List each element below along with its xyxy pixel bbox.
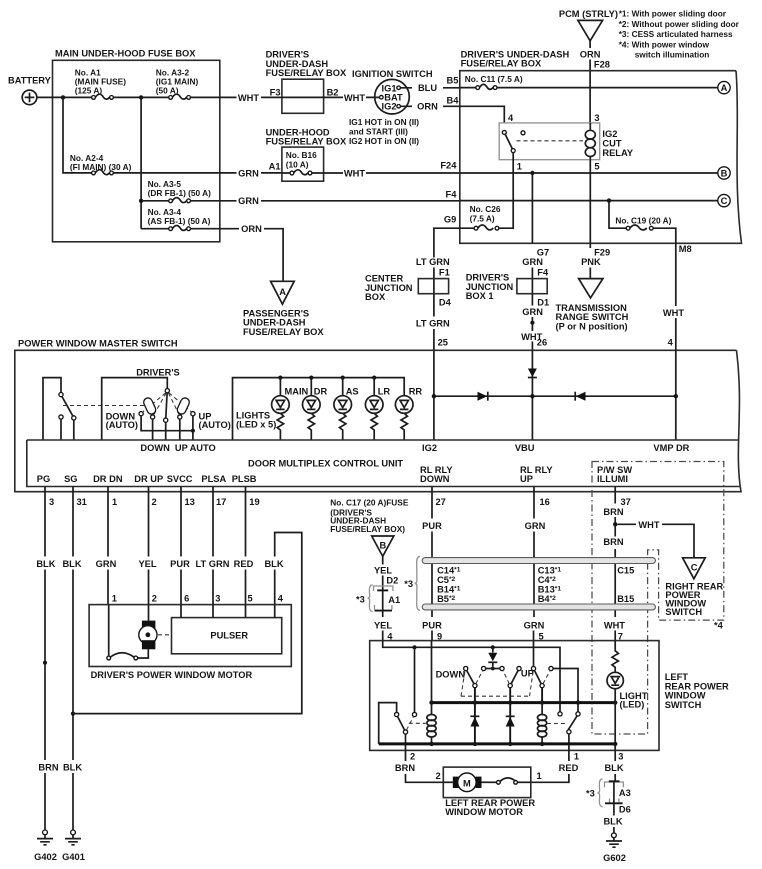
svg-text:(10 A): (10 A)	[286, 160, 309, 170]
fuse A2-4 (FI MAIN 30A)	[70, 153, 132, 175]
svg-text:FUSE/RELAY BOX: FUSE/RELAY BOX	[461, 59, 542, 69]
wire GRN (pin16) down	[533, 487, 536, 641]
dashed link motor to pulser	[158, 634, 171, 636]
wire A1 to A3-2	[113, 96, 168, 98]
svg-text:GRN: GRN	[524, 620, 545, 630]
label *3 with brace for rails	[404, 556, 420, 610]
svg-text:*3: *3	[586, 788, 595, 798]
motor box	[89, 605, 291, 667]
svg-text:D2: D2	[386, 576, 398, 586]
svg-text:MAIN UNDER-HOOD FUSE BOX: MAIN UNDER-HOOD FUSE BOX	[55, 49, 196, 59]
wire VMP DR feed (pin4) inside box	[675, 350, 677, 440]
svg-text:DR: DR	[314, 386, 328, 396]
wire rail to left SPDT contact	[414, 647, 416, 712]
wire battery branch down to A2-4	[63, 97, 93, 172]
svg-text:LR: LR	[378, 386, 391, 396]
wire vertical feed to A3-5/A3-4	[140, 97, 142, 228]
svg-text:(DR FB-1) (50 A): (DR FB-1) (50 A)	[148, 188, 212, 198]
wire G7 down from B row	[531, 173, 533, 243]
left switch bracket	[43, 378, 61, 440]
svg-text:BATTERY: BATTERY	[8, 75, 52, 85]
motor M2	[443, 773, 496, 792]
svg-text:WHT: WHT	[638, 520, 659, 530]
svg-text:No. C17 (20 A)FUSE: No. C17 (20 A)FUSE	[330, 498, 409, 508]
svg-text:LT GRN: LT GRN	[196, 559, 230, 569]
labels rail connector column 1	[437, 566, 461, 604]
svg-text:IG2 HOT in ON (II): IG2 HOT in ON (II)	[349, 136, 419, 146]
svg-text:SG: SG	[64, 474, 77, 484]
LED AS	[334, 396, 352, 440]
labels rail connector column 2	[538, 566, 562, 604]
driver's under-dash fuse/relay box (F3-B2)	[266, 50, 347, 114]
svg-text:UP: UP	[520, 474, 533, 484]
svg-text:FUSE/RELAY BOX): FUSE/RELAY BOX)	[330, 524, 405, 534]
pin numbers right group	[436, 497, 631, 507]
wire DOWN contact to bus	[474, 688, 476, 703]
svg-text:B5: B5	[447, 75, 459, 85]
LED bracket rail	[233, 378, 405, 440]
svg-text:PUR: PUR	[422, 521, 442, 531]
svg-text:19: 19	[249, 497, 259, 507]
svg-text:GRN: GRN	[525, 521, 546, 531]
svg-text:G602: G602	[603, 853, 626, 863]
svg-text:UP: UP	[521, 669, 534, 679]
node bus right coil	[540, 700, 544, 704]
connector triangle A (passenger's under-dash fuse/relay box)	[243, 281, 324, 337]
left SPDT hook wire	[379, 703, 397, 744]
svg-text:ILLUMI: ILLUMI	[597, 474, 628, 484]
svg-text:IGNITION SWITCH: IGNITION SWITCH	[352, 69, 433, 79]
svg-text:F4: F4	[537, 267, 549, 277]
label RL RLY DOWN	[420, 465, 453, 484]
svg-text:D4: D4	[439, 298, 452, 308]
svg-text:LT GRN: LT GRN	[416, 257, 450, 267]
svg-text:BRN: BRN	[603, 537, 623, 547]
svg-text:DOWN: DOWN	[420, 474, 450, 484]
wire WHT (M8) to pin 4	[675, 243, 677, 350]
svg-text:ORN: ORN	[417, 102, 438, 112]
driver's switch bracket	[102, 378, 168, 440]
svg-text:M8: M8	[679, 244, 692, 254]
master switch box outline with torn right edge	[15, 339, 741, 492]
svg-text:A1: A1	[269, 162, 281, 172]
svg-text:DR UP: DR UP	[134, 474, 163, 484]
driver's under-dash fuse/relay box (right) outline with torn edge	[460, 49, 742, 243]
svg-text:BRN: BRN	[38, 763, 58, 773]
notes *1-*4	[619, 9, 740, 60]
svg-text:16: 16	[540, 497, 550, 507]
svg-text:(AS FB-1) (50 A): (AS FB-1) (50 A)	[148, 216, 211, 226]
node bus LED branch	[613, 700, 617, 704]
wire ORN row to passenger triangle	[191, 229, 284, 282]
fuse A1 (MAIN FUSE 125A)	[75, 68, 126, 100]
CESS rail upper	[422, 558, 655, 564]
svg-text:1: 1	[112, 593, 117, 603]
svg-text:YEL: YEL	[138, 559, 156, 569]
svg-text:ORN: ORN	[580, 49, 601, 59]
svg-text:IG2: IG2	[422, 443, 437, 453]
svg-text:PUR: PUR	[170, 559, 190, 569]
svg-text:(AUTO): (AUTO)	[199, 420, 231, 430]
connector circle B	[718, 167, 730, 179]
label DOWN (AUTO)	[106, 411, 138, 430]
resistor on WHT illumination	[612, 641, 618, 673]
svg-text:switch illumination: switch illumination	[635, 50, 710, 60]
svg-text:PCM (STRLY): PCM (STRLY)	[559, 9, 618, 19]
fuse No. C11 (7.5 A)	[460, 74, 523, 89]
svg-text:31: 31	[77, 497, 87, 507]
svg-text:5: 5	[539, 631, 544, 641]
wire RED to motor	[531, 750, 569, 782]
wire BRN (pin37) down	[614, 487, 616, 641]
connector circle C	[718, 194, 730, 206]
svg-text:BOX 1: BOX 1	[466, 291, 494, 301]
node B row / G7 junction	[530, 171, 534, 175]
wire battery to fuse A1	[37, 96, 93, 98]
svg-text:GRN: GRN	[96, 559, 117, 569]
node rail to diode	[491, 645, 495, 649]
pin numbers left group	[49, 497, 260, 507]
labels pin names bottom row	[37, 474, 257, 484]
relay IG2 CUT RELAY	[499, 123, 634, 160]
wire IG2 feed (pin25) inside box	[433, 350, 435, 440]
connector D2/A1 pair	[374, 586, 393, 617]
svg-text:4: 4	[668, 338, 674, 348]
svg-text:GRN: GRN	[522, 307, 543, 317]
svg-text:BOX: BOX	[365, 292, 386, 302]
svg-text:G402: G402	[34, 852, 57, 862]
svg-text:7: 7	[618, 631, 623, 641]
svg-text:AUTO: AUTO	[190, 443, 216, 453]
battery	[8, 75, 52, 104]
connector triangle C	[683, 558, 706, 579]
svg-text:GRN: GRN	[522, 257, 543, 267]
svg-text:13: 13	[185, 497, 195, 507]
connector A3/D6 pair	[605, 781, 624, 813]
wire BRN to motor	[406, 750, 444, 782]
wire BLK motor pin4 return loop	[73, 533, 302, 714]
wire BLK pin3 to A3 connector	[614, 750, 616, 781]
label *3 with brace	[356, 585, 373, 612]
relay coil right	[538, 703, 547, 744]
label *3 with brace	[586, 779, 603, 807]
diode pointing right	[478, 392, 488, 401]
svg-text:1: 1	[537, 771, 542, 781]
svg-text:2: 2	[410, 752, 415, 762]
svg-text:WHT: WHT	[604, 620, 625, 630]
svg-text:*2: Without power sliding door: *2: Without power sliding door	[619, 19, 740, 29]
svg-text:FUSE/RELAY BOX: FUSE/RELAY BOX	[266, 68, 347, 78]
svg-text:POWER WINDOW MASTER SWITCH: POWER WINDOW MASTER SWITCH	[18, 339, 178, 349]
svg-text:PLSA: PLSA	[201, 474, 226, 484]
wire YEL top rail	[383, 641, 560, 712]
svg-text:B15: B15	[617, 594, 634, 604]
dashed link left switch to driver's switch	[63, 405, 145, 407]
node bus up-diode branch	[508, 700, 512, 704]
svg-text:RR: RR	[409, 386, 423, 396]
wire BLK to ground	[613, 813, 615, 833]
svg-text:F3: F3	[270, 87, 281, 97]
svg-text:A3: A3	[619, 788, 631, 798]
node bottom bus coil left	[429, 742, 433, 746]
label No. C17 fuse note	[330, 498, 409, 535]
node diode row left	[432, 394, 436, 398]
svg-text:F24: F24	[440, 161, 457, 171]
svg-text:1: 1	[574, 752, 579, 762]
svg-text:5: 5	[594, 162, 599, 172]
wire DR UP YEL to motor pin2	[148, 487, 150, 605]
svg-text:1: 1	[517, 162, 522, 172]
dashed rocker mechanism	[461, 672, 533, 697]
svg-text:M: M	[463, 779, 471, 789]
wire pin2 BRN out of box	[405, 734, 407, 750]
LED LR	[365, 396, 383, 440]
fuse A3-5 (DR FB-1 50A)	[141, 179, 211, 203]
svg-text:6: 6	[184, 593, 189, 603]
svg-text:A1: A1	[388, 595, 400, 605]
thick bus	[432, 701, 616, 704]
wire row A	[497, 87, 718, 89]
svg-text:*3: *3	[356, 595, 365, 605]
node A3-5 junction	[139, 199, 143, 203]
wire UP aux contact to lower right SPDT	[553, 669, 578, 712]
driver's switch pivot and contacts	[139, 389, 195, 423]
center junction box	[365, 274, 449, 303]
wire PUR into left relay coil	[431, 641, 433, 703]
svg-text:DRIVER'S POWER WINDOW MOTOR: DRIVER'S POWER WINDOW MOTOR	[91, 670, 253, 680]
left switch contacts	[59, 393, 76, 441]
diode up branch (pointing up)	[506, 703, 515, 744]
svg-text:RED: RED	[234, 559, 254, 569]
svg-text:F4: F4	[446, 190, 458, 200]
svg-text:WHT: WHT	[344, 168, 365, 178]
svg-text:3: 3	[594, 113, 599, 123]
svg-text:and START (III): and START (III)	[349, 126, 408, 136]
svg-text:GRN: GRN	[238, 168, 259, 178]
wire LED to bottom bus and pin3	[614, 703, 616, 751]
svg-text:MAIN: MAIN	[285, 386, 309, 396]
LIGHT LED	[607, 672, 623, 702]
svg-text:DRIVER'S: DRIVER'S	[136, 368, 180, 378]
svg-text:VBU: VBU	[515, 443, 535, 453]
wire GRN row (A3-5 out) to F4 of driver's box	[191, 200, 460, 202]
label UP (AUTO)	[199, 411, 231, 430]
label RL RLY UP	[520, 465, 553, 484]
fuse A3-4 (AS FB-1 50A)	[141, 207, 211, 231]
svg-text:DOOR MULTIPLEX CONTROL UNIT: DOOR MULTIPLEX CONTROL UNIT	[248, 459, 403, 469]
svg-text:37: 37	[621, 497, 631, 507]
svg-text:PNK: PNK	[581, 257, 601, 267]
svg-text:YEL: YEL	[374, 565, 392, 575]
svg-text:4: 4	[387, 631, 393, 641]
svg-text:BLK: BLK	[604, 763, 623, 773]
svg-text:(7.5 A): (7.5 A)	[470, 213, 495, 223]
ground G401	[62, 830, 85, 862]
svg-text:IG2: IG2	[382, 102, 397, 112]
diode VBU down	[528, 369, 537, 378]
label right rear power window switch	[665, 582, 723, 618]
svg-text:B: B	[721, 169, 728, 179]
ground G402	[34, 830, 57, 862]
fuse A3-2 (IG1 MAIN 50A)	[156, 68, 199, 100]
wire YEL to left rear switch pin4	[382, 631, 384, 641]
svg-text:BLU: BLU	[418, 83, 437, 93]
connector triangle B	[372, 536, 394, 556]
nodes on LED bracket	[278, 376, 376, 396]
svg-text:BRN: BRN	[395, 763, 415, 773]
node diode to contacts	[491, 667, 495, 671]
svg-text:3: 3	[618, 752, 623, 762]
svg-text:A: A	[721, 83, 728, 93]
node bus PUR coil	[429, 700, 433, 704]
wire UP contact to bus	[509, 688, 511, 703]
door multiplex control unit box	[27, 440, 740, 487]
svg-text:*3: *3	[404, 579, 413, 589]
wire row B (F24 to circle B)	[460, 172, 718, 174]
node SG / motor return junction	[71, 712, 75, 716]
svg-text:4: 4	[508, 113, 514, 123]
diode down branch (pointing up)	[470, 703, 479, 744]
svg-text:26: 26	[537, 338, 547, 348]
svg-text:PUR: PUR	[422, 620, 442, 630]
labels MAIN DR AS LR RR	[285, 386, 423, 396]
fuse No. C19 (20 A)	[609, 201, 676, 244]
motor M1	[138, 605, 157, 658]
svg-text:VMP DR: VMP DR	[653, 443, 689, 453]
wire row C (F4 to circle C)	[460, 200, 718, 202]
svg-text:FUSE/RELAY BOX: FUSE/RELAY BOX	[266, 137, 347, 147]
node C row / C19 junction	[607, 198, 611, 202]
svg-text:C: C	[691, 562, 698, 572]
svg-text:C: C	[721, 196, 728, 206]
svg-text:SVCC: SVCC	[167, 474, 193, 484]
wire PLSA LT GRN to motor pin3	[212, 487, 214, 605]
svg-text:PG: PG	[37, 474, 50, 484]
fuse No. C26 (7.5 A)	[434, 204, 501, 258]
svg-text:17: 17	[216, 497, 226, 507]
svg-text:D6: D6	[619, 805, 631, 815]
node splice on G7 wire	[530, 321, 534, 325]
left rear power window motor box	[436, 767, 542, 817]
svg-text:BLK: BLK	[62, 559, 81, 569]
svg-text:G9: G9	[444, 215, 456, 225]
LED MAIN	[272, 396, 290, 440]
svg-text:RED: RED	[559, 763, 579, 773]
svg-text:2: 2	[152, 593, 157, 603]
svg-text:(LED): (LED)	[620, 700, 645, 710]
bottom bus	[379, 742, 616, 745]
thermal protector	[107, 605, 138, 660]
wire WHT B16 to F24	[324, 172, 460, 174]
node on PG wire	[43, 661, 47, 665]
label P/W SW ILLUMI	[597, 465, 632, 484]
svg-text:YEL: YEL	[374, 620, 392, 630]
LED DR	[303, 396, 321, 440]
svg-text:A: A	[279, 287, 286, 297]
svg-text:(LED x 5): (LED x 5)	[236, 419, 276, 429]
svg-text:*1: With power sliding door: *1: With power sliding door	[619, 9, 727, 19]
svg-text:9: 9	[437, 631, 442, 641]
wire relay pin1 down to C26 fuse row	[499, 153, 513, 229]
wire YEL below triangle B	[382, 556, 384, 590]
wire B4 ORN to relay pin 4	[460, 106, 505, 123]
svg-text:SWITCH: SWITCH	[665, 607, 702, 617]
svg-text:(AUTO): (AUTO)	[106, 420, 138, 430]
svg-text:WHT: WHT	[663, 308, 684, 318]
ground G602	[603, 833, 626, 863]
diode pointing left	[575, 392, 585, 401]
svg-text:DOWN: DOWN	[140, 443, 170, 453]
svg-text:G7: G7	[537, 248, 549, 258]
svg-text:WHT: WHT	[344, 93, 365, 103]
svg-text:2: 2	[436, 771, 441, 781]
node bottom bus LED	[613, 742, 617, 746]
main under-hood fuse box outline	[53, 49, 220, 242]
node auto junction	[191, 429, 195, 433]
pulser box	[172, 605, 282, 654]
right SPDT switch	[547, 712, 580, 734]
svg-text:1: 1	[112, 497, 117, 507]
left SPDT switch	[395, 712, 426, 734]
labels DOWN UP AUTO	[140, 443, 215, 453]
driver's junction box 1	[466, 273, 548, 302]
fuse B16	[282, 170, 324, 175]
svg-text:UP: UP	[175, 443, 188, 453]
svg-text:PULSER: PULSER	[210, 631, 248, 641]
PCM (STRLY) connector triangle	[559, 9, 618, 41]
wire SVCC PUR to motor pin6	[180, 487, 182, 605]
LED RR	[395, 396, 413, 440]
diode auto-down (pointing down)	[488, 647, 497, 666]
wire VBU feed (pin26) inside box	[531, 350, 533, 440]
node illumination junction	[613, 522, 617, 526]
wire GRN (G7) to pin 26	[531, 268, 533, 351]
wire auto L-link	[141, 416, 193, 440]
ignition switch	[349, 69, 433, 146]
switch DOWN contacts	[464, 666, 486, 687]
svg-text:BLK: BLK	[264, 559, 283, 569]
svg-text:C15: C15	[617, 566, 634, 576]
dash-dot harness boundary	[592, 462, 724, 735]
svg-text:B4: B4	[447, 95, 460, 105]
CESS rail lower	[422, 604, 655, 610]
wire GRN into UP switch	[533, 641, 535, 667]
wire WHT row to F3 box	[191, 96, 282, 98]
node battery junction	[61, 95, 65, 99]
svg-text:LT GRN: LT GRN	[416, 319, 450, 329]
svg-text:F28: F28	[594, 60, 610, 70]
node bottom bus diode2	[508, 742, 512, 746]
svg-text:B2: B2	[327, 87, 339, 97]
relay coil left	[427, 703, 436, 744]
wire BLU IG1 to B5	[400, 87, 459, 89]
svg-text:F29: F29	[594, 248, 610, 258]
svg-text:WHT: WHT	[238, 93, 259, 103]
wire UP blade lower contact to bus	[541, 688, 543, 703]
svg-text:25: 25	[438, 338, 448, 348]
svg-text:G401: G401	[62, 852, 85, 862]
wire WHT to triangle C	[617, 524, 694, 558]
svg-text:BLK: BLK	[63, 763, 82, 773]
svg-text:(P or N position): (P or N position)	[556, 322, 628, 332]
node bus down-diode branch	[473, 700, 477, 704]
transmission range switch triangle	[556, 279, 629, 332]
svg-text:SWITCH: SWITCH	[665, 700, 702, 710]
node A3-2 feed junction	[139, 95, 143, 99]
svg-text:B: B	[380, 541, 387, 551]
node rail to left SPDT	[412, 645, 416, 649]
label LIGHTS (LED x 5)	[236, 411, 276, 430]
